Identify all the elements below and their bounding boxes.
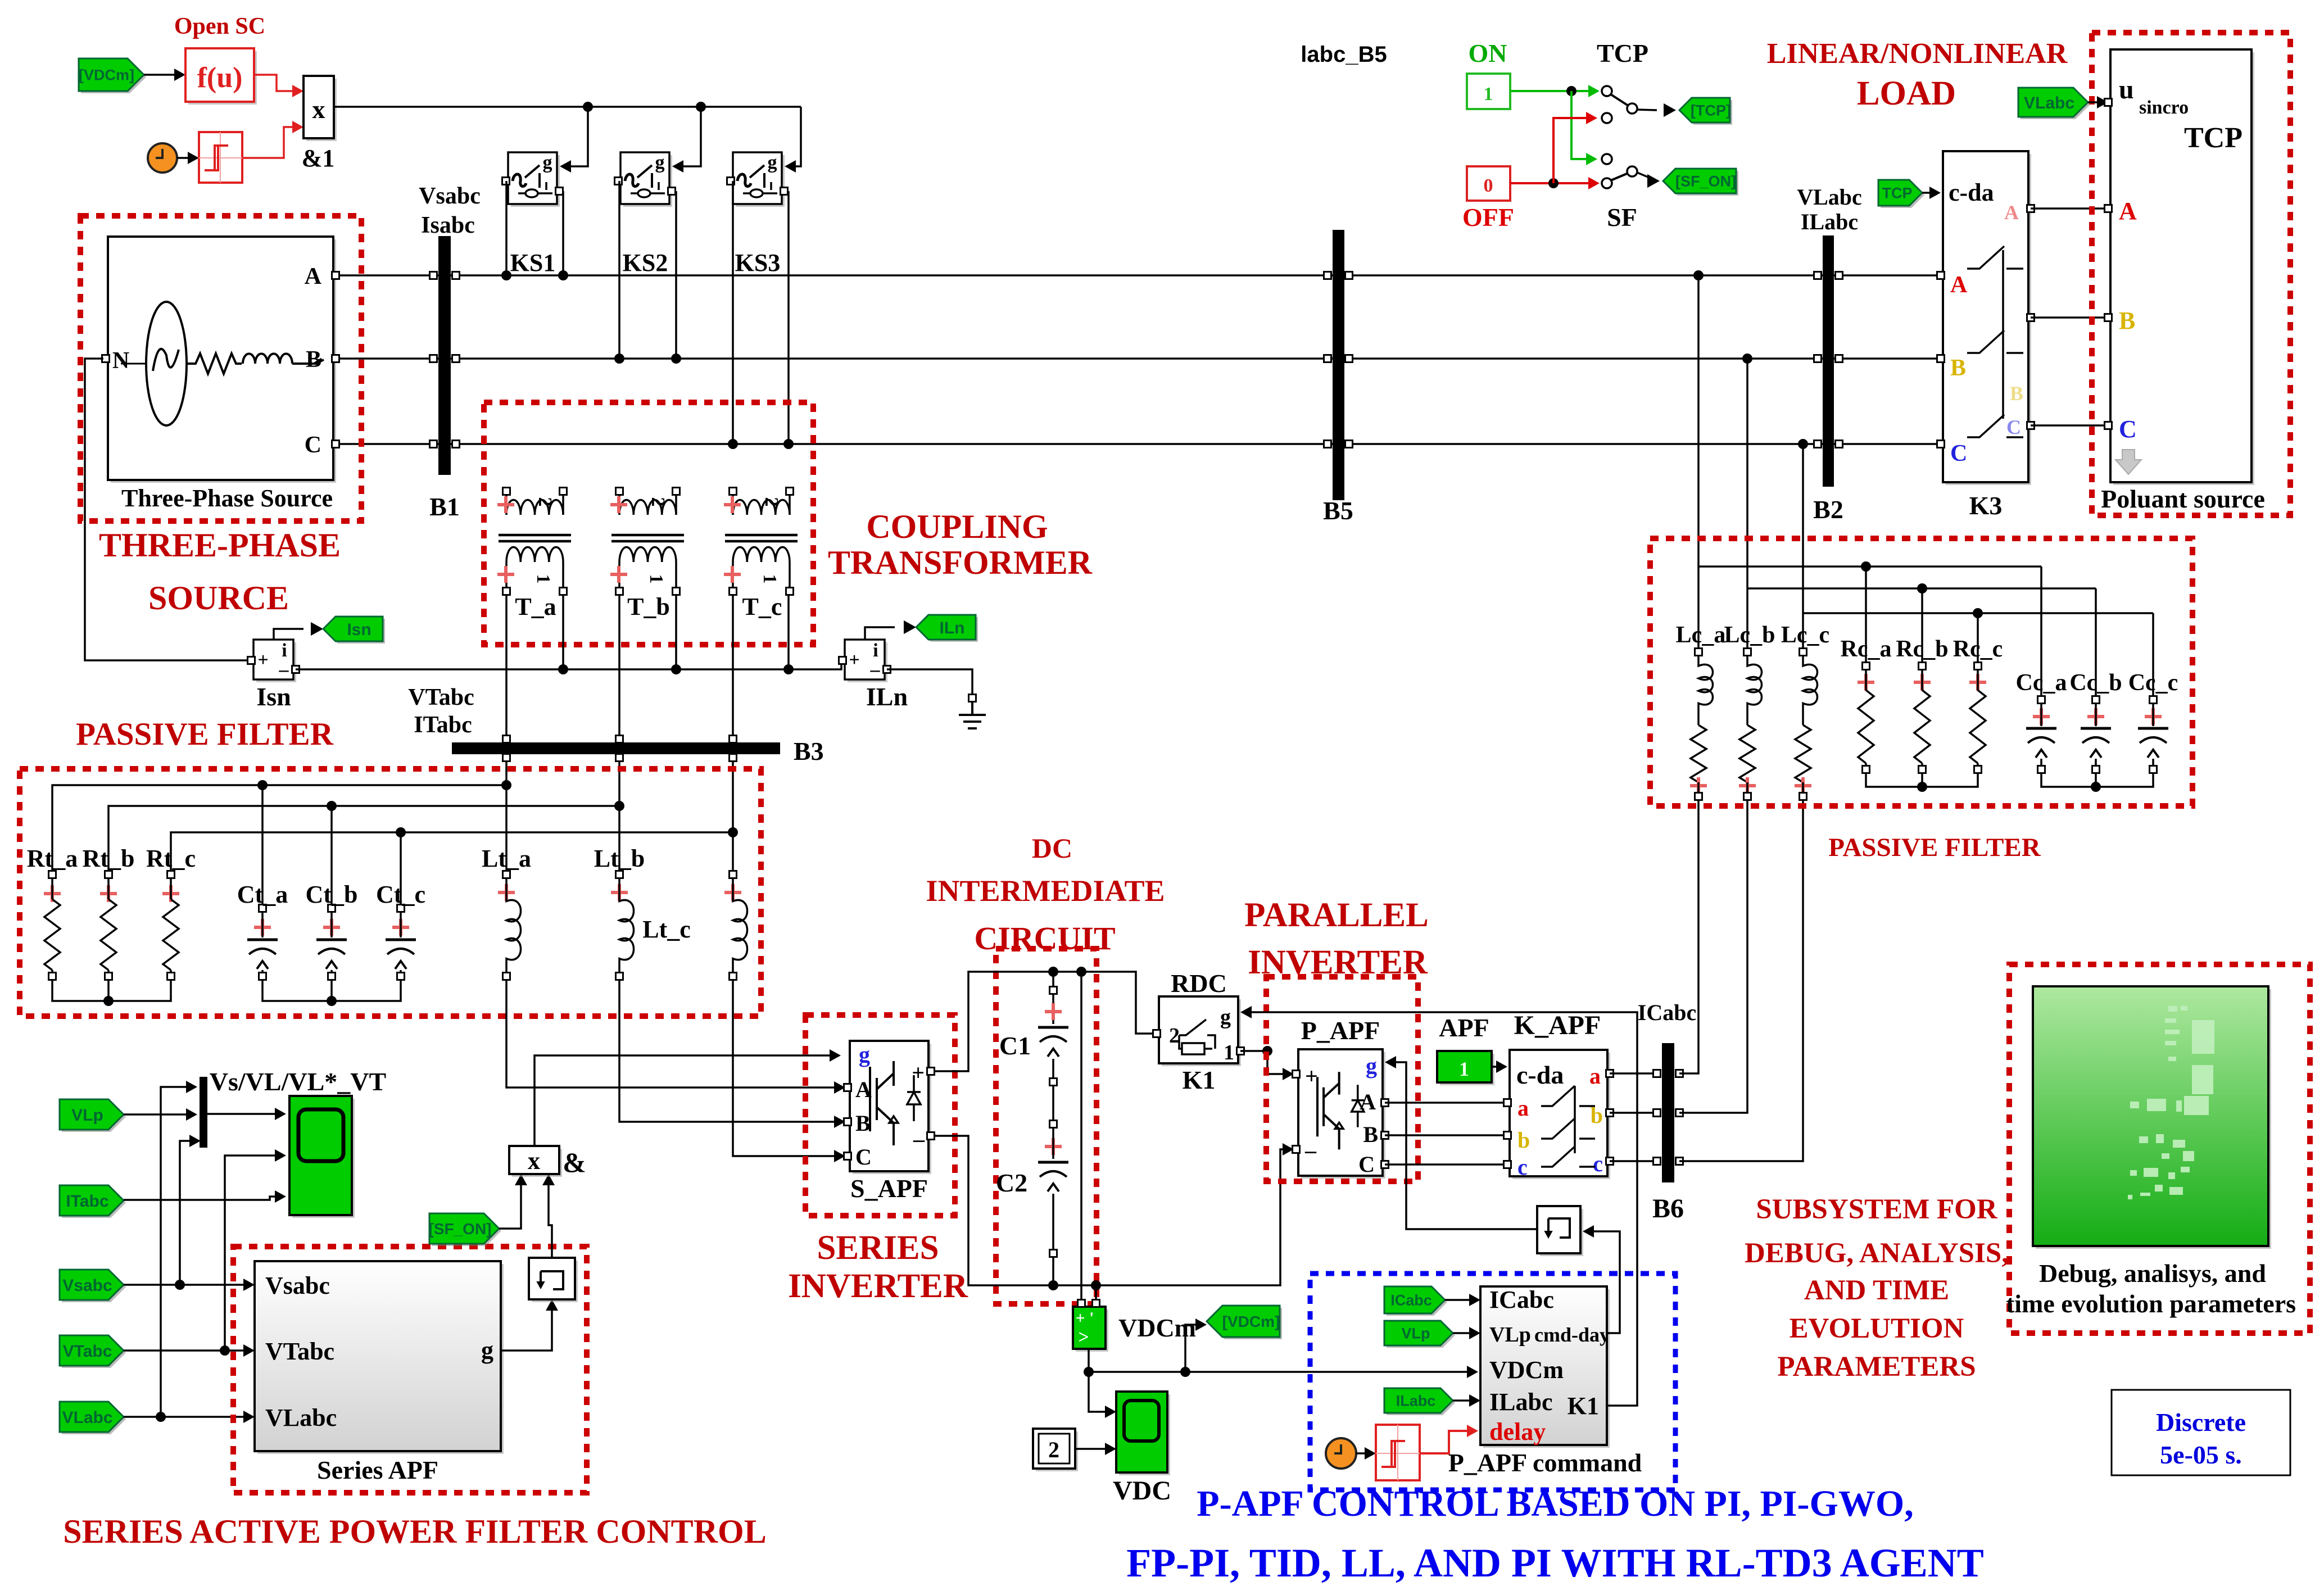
capacitor Ct_c xyxy=(400,832,402,905)
svg-text:INVERTER: INVERTER xyxy=(1248,944,1428,981)
block Isn current measurement xyxy=(256,642,296,682)
svg-text:2: 2 xyxy=(1169,1024,1180,1048)
svg-text:c-da: c-da xyxy=(1516,1061,1564,1089)
svg-text:&1: &1 xyxy=(302,144,335,172)
wire cmd-day to unit delay2 xyxy=(1586,1231,1620,1333)
svg-text:VLabc: VLabc xyxy=(1797,184,1862,210)
transformer T_a xyxy=(503,488,510,495)
source resistor xyxy=(187,354,242,374)
wire VDCm minus stub xyxy=(1095,1285,1097,1300)
wire P_APF a to K_APF a xyxy=(1385,1102,1505,1104)
dashed box series inverter xyxy=(805,1015,955,1216)
inductor Lt_b xyxy=(616,871,623,878)
capacitor Cc_a xyxy=(2040,567,2042,696)
wire Vsabc to Series APF xyxy=(124,1284,251,1286)
wire K_APF c to B6 xyxy=(1610,1160,1659,1162)
wire T_a left leg to B3 xyxy=(505,595,508,738)
from tag VLabc xyxy=(62,1404,126,1434)
wire VTabc to Series APF xyxy=(124,1349,251,1352)
wire VLp to mux in2 xyxy=(124,1113,194,1116)
from tag VDCm xyxy=(81,61,146,93)
svg-text:VTabc: VTabc xyxy=(408,685,474,710)
wire to VDCm goto tag xyxy=(1185,1325,1203,1372)
svg-text:x: x xyxy=(312,95,325,124)
svg-text:ILabc: ILabc xyxy=(1801,209,1858,234)
wire Rt bottom bus xyxy=(52,980,171,1001)
breaker block KS2 xyxy=(623,155,672,207)
clock block Clock1 xyxy=(148,143,177,173)
svg-text:TCP: TCP xyxy=(1882,185,1913,202)
wire ON green xyxy=(1510,90,1596,92)
block Poluant source xyxy=(2113,52,2254,485)
svg-text:Vsabc: Vsabc xyxy=(265,1272,330,1299)
wire B6 c riser xyxy=(1679,800,1803,1161)
svg-text:2: 2 xyxy=(647,497,668,507)
wire T_a right leg to neutral xyxy=(562,595,564,669)
svg-text:K3: K3 xyxy=(1969,491,2003,520)
wire KS3 right leg xyxy=(787,191,790,444)
bus B2 xyxy=(1823,235,1834,487)
svg-text:b: b xyxy=(1517,1127,1530,1153)
wire K3 A out xyxy=(2031,207,2107,210)
svg-text:Vsabc: Vsabc xyxy=(62,1276,112,1295)
svg-text:c: c xyxy=(1593,1151,1603,1176)
svg-text:B6: B6 xyxy=(1652,1194,1684,1224)
inductor Lt_a xyxy=(503,871,510,878)
from tag VLp xyxy=(62,1102,126,1132)
svg-text:–: – xyxy=(870,659,881,680)
svg-text:B: B xyxy=(2119,307,2135,334)
wire B3c down xyxy=(732,761,734,874)
svg-text:TCP: TCP xyxy=(1597,39,1648,67)
wire VLabc to Series APF xyxy=(124,1416,251,1418)
svg-text:B5: B5 xyxy=(1323,496,1353,525)
svg-text:C: C xyxy=(1950,441,1967,466)
svg-text:P_APF command: P_APF command xyxy=(1448,1448,1642,1477)
svg-text:ITabc: ITabc xyxy=(414,712,472,738)
svg-text:Debug, analisys, and: Debug, analisys, and xyxy=(2039,1259,2266,1288)
block f(u) Fcn xyxy=(188,51,257,105)
wire collector line b xyxy=(108,806,619,874)
svg-text:Series APF: Series APF xyxy=(317,1456,438,1484)
wire DC top rail xyxy=(934,972,1153,1071)
wire delay2 to P_APF g xyxy=(1388,1062,1537,1229)
svg-text:APF: APF xyxy=(1439,1013,1489,1042)
svg-text:1: 1 xyxy=(1459,1058,1469,1080)
from tag TCP K3 xyxy=(1881,182,1924,208)
svg-text:g: g xyxy=(655,152,665,173)
junction dots phase lines KS xyxy=(501,270,511,280)
svg-text:SF: SF xyxy=(1607,203,1637,232)
dashed box passive filter left xyxy=(20,769,761,1016)
wire relay to product xyxy=(242,127,300,158)
wire VDCm out line xyxy=(1089,1349,1475,1372)
svg-text:Three-Phase Source: Three-Phase Source xyxy=(121,484,333,512)
block P_APF command xyxy=(1483,1289,1610,1448)
svg-text:1: 1 xyxy=(759,574,780,584)
breaker block KS1 xyxy=(511,155,560,207)
wire relay2 to delay input red xyxy=(1420,1431,1474,1453)
from tag ITabc xyxy=(62,1188,126,1218)
svg-text:PASSIVE FILTER: PASSIVE FILTER xyxy=(76,717,334,752)
constant block 2 xyxy=(1036,1431,1078,1471)
svg-text:C: C xyxy=(855,1144,872,1170)
wire ILabc to block xyxy=(1453,1399,1477,1402)
wire Rc_c feeder xyxy=(1977,613,1979,663)
svg-text:+ ': + ' xyxy=(1076,1309,1094,1327)
wire VDCm plus riser xyxy=(1080,972,1082,1300)
wire Lt_b to S_APF B xyxy=(619,980,842,1122)
svg-text:VLp: VLp xyxy=(1402,1325,1430,1342)
wire const2 to VDC scope xyxy=(1075,1448,1113,1450)
svg-text:5e-05 s.: 5e-05 s. xyxy=(2160,1440,2242,1469)
svg-text:Cc_a: Cc_a xyxy=(2016,670,2067,696)
constant block OFF 0 xyxy=(1467,166,1510,201)
svg-text:cmd-day: cmd-day xyxy=(1534,1324,1610,1346)
wire RDC out to P_APF plus xyxy=(1240,1051,1290,1074)
svg-text:A: A xyxy=(305,264,322,289)
goto tag SF_ON xyxy=(1665,171,1738,196)
svg-text:ON: ON xyxy=(1469,39,1507,67)
svg-text:SOURCE: SOURCE xyxy=(148,579,289,617)
wire Rc bottom bus xyxy=(1866,773,1978,787)
wire VLabc tap to mux in1 xyxy=(161,1087,194,1417)
svg-text:LOAD: LOAD xyxy=(1857,75,1956,112)
manual switch SF xyxy=(1602,154,1612,164)
svg-text:–: – xyxy=(1304,1138,1317,1163)
dashed box parallel inverter xyxy=(1266,977,1418,1181)
debug inner pattern xyxy=(2168,1006,2177,1012)
wire ITabc to scope in3 xyxy=(124,1197,282,1200)
svg-text:C: C xyxy=(1358,1152,1375,1177)
svg-text:Isabc: Isabc xyxy=(421,212,475,238)
svg-text:[VDCm]: [VDCm] xyxy=(1222,1313,1280,1330)
svg-text:B3: B3 xyxy=(794,737,824,765)
svg-text:g: g xyxy=(859,1042,870,1067)
scope block VDC xyxy=(1119,1394,1170,1475)
unit delay block 2 xyxy=(1540,1209,1583,1256)
svg-text:SERIES: SERIES xyxy=(817,1229,939,1267)
svg-text:1: 1 xyxy=(646,574,667,584)
from tag Vsabc xyxy=(62,1272,126,1302)
svg-text:delay: delay xyxy=(1489,1418,1546,1446)
wire P_APF b to K_APF b xyxy=(1385,1134,1505,1136)
svg-text:Cc_c: Cc_c xyxy=(2128,670,2178,696)
svg-text:INTERMEDIATE: INTERMEDIATE xyxy=(926,874,1165,908)
wire ILn to goto tag xyxy=(865,627,895,640)
capacitor Ct_b xyxy=(330,806,333,905)
svg-text:K1: K1 xyxy=(1568,1392,1599,1420)
wire KS3 left leg xyxy=(732,181,734,444)
scope block Vs/VL/VL*_VT xyxy=(292,1099,355,1218)
svg-text:–: – xyxy=(279,659,289,680)
svg-text:>: > xyxy=(1078,1327,1089,1348)
svg-text:Open SC: Open SC xyxy=(174,13,265,39)
wire product2 to S_APF g xyxy=(534,1055,837,1146)
svg-text:A: A xyxy=(1360,1089,1376,1114)
product block x (&1) xyxy=(306,79,337,141)
svg-text:Poluant source: Poluant source xyxy=(2101,484,2265,513)
svg-text:g: g xyxy=(543,152,552,173)
svg-text:N: N xyxy=(112,348,129,374)
svg-text:a: a xyxy=(1589,1063,1601,1089)
from tag VLabc poluant xyxy=(2021,90,2090,119)
wire KS2 right leg xyxy=(675,191,677,359)
wire mux to scope in1 xyxy=(207,1113,282,1115)
svg-text:C2: C2 xyxy=(996,1168,1027,1197)
wire clock to relay xyxy=(177,157,196,159)
svg-text:VTabc: VTabc xyxy=(265,1338,334,1365)
svg-text:T_c: T_c xyxy=(742,593,782,620)
wire VDCm to f(u) xyxy=(144,74,182,76)
svg-text:+: + xyxy=(257,650,268,670)
wire Ct bottom bus xyxy=(262,980,401,1001)
svg-text:+: + xyxy=(1305,1063,1318,1089)
svg-text:T_a: T_a xyxy=(515,593,556,620)
svg-text:ITabc: ITabc xyxy=(66,1192,108,1211)
svg-text:VDCm: VDCm xyxy=(1489,1356,1564,1384)
wire feeder C xyxy=(1802,444,1804,652)
wire neutral Isn to ILn xyxy=(296,660,842,669)
wire B3b down xyxy=(618,761,620,874)
svg-text:[SF_ON]: [SF_ON] xyxy=(429,1220,492,1238)
capacitor Ct_a xyxy=(261,785,264,905)
svg-text:Rt_c: Rt_c xyxy=(146,845,196,872)
block Discrete xyxy=(2112,1390,2290,1475)
svg-text:KS1: KS1 xyxy=(510,249,556,277)
svg-text:TCP: TCP xyxy=(2184,122,2243,154)
wire Rc_a feeder xyxy=(1865,567,1867,663)
wire collector a right xyxy=(1698,565,2041,568)
inductor-resistor Lc_b xyxy=(1744,649,1751,656)
svg-text:KS2: KS2 xyxy=(623,249,668,277)
svg-text:AND TIME: AND TIME xyxy=(1804,1275,1949,1306)
goto tag ILn xyxy=(918,617,978,642)
svg-text:A: A xyxy=(1950,272,1968,298)
svg-text:C1: C1 xyxy=(999,1031,1031,1060)
resistor Rc_a xyxy=(1863,663,1870,670)
svg-text:LINEAR/NONLINEAR: LINEAR/NONLINEAR xyxy=(1767,38,2068,70)
goto tag VDCm xyxy=(1209,1308,1282,1339)
wire K1 to RDC g xyxy=(1244,1012,1637,1406)
svg-text:OFF: OFF xyxy=(1462,203,1514,232)
svg-text:Ct_b: Ct_b xyxy=(306,881,358,908)
gray arrow icon xyxy=(2115,450,2141,474)
svg-text:EVOLUTION: EVOLUTION xyxy=(1790,1313,1964,1344)
wire phase A line xyxy=(334,274,1942,277)
product block x2 & xyxy=(512,1149,562,1177)
svg-text:2: 2 xyxy=(761,497,782,507)
svg-text:Rt_a: Rt_a xyxy=(27,845,78,872)
wire VTabc tap to scope in2 xyxy=(225,1156,282,1351)
manual switch TCP xyxy=(1602,86,1612,96)
wire B6 b riser xyxy=(1679,800,1747,1113)
svg-text:Lt_c: Lt_c xyxy=(642,916,691,943)
dashed box coupling transformer xyxy=(484,402,813,645)
svg-text:Ct_a: Ct_a xyxy=(237,881,288,908)
svg-text:[VDCm]: [VDCm] xyxy=(79,67,134,84)
wire T_b left leg to B3 xyxy=(618,595,620,738)
svg-text:VLabc: VLabc xyxy=(265,1404,337,1431)
wire Lt_a to S_APF A xyxy=(506,980,842,1087)
wire collector line a xyxy=(52,785,506,874)
wire APF to K_APF xyxy=(1492,1066,1504,1068)
wire ILn to ground xyxy=(887,669,972,695)
svg-text:VTabc: VTabc xyxy=(63,1342,112,1361)
svg-text:g: g xyxy=(768,152,777,173)
svg-text:Isn: Isn xyxy=(256,682,291,711)
svg-text:–: – xyxy=(913,1126,925,1152)
svg-text:+: + xyxy=(849,650,859,670)
svg-text:g: g xyxy=(481,1336,493,1364)
svg-text:Ct_c: Ct_c xyxy=(376,881,425,908)
svg-text:ICabc: ICabc xyxy=(1638,1000,1696,1025)
svg-text:x: x xyxy=(528,1147,540,1175)
svg-text:Vsabc: Vsabc xyxy=(419,183,481,209)
wire Isn to goto tag xyxy=(274,629,303,640)
dashed box poluant source xyxy=(2092,33,2290,515)
block RDC K1 xyxy=(1162,999,1241,1066)
wire K_APF b to B6 xyxy=(1610,1112,1659,1114)
svg-text:THREE-PHASE: THREE-PHASE xyxy=(99,527,341,564)
svg-text:VLp: VLp xyxy=(71,1106,103,1125)
wire B3a down xyxy=(505,761,508,874)
svg-text:C: C xyxy=(2119,415,2137,443)
block debug subsystem xyxy=(2036,989,2271,1249)
bus B5 xyxy=(1333,230,1344,500)
svg-text:B: B xyxy=(2010,382,2023,405)
svg-text:&: & xyxy=(563,1147,586,1178)
svg-text:2: 2 xyxy=(1048,1437,1059,1462)
block relay Relay1 xyxy=(199,132,242,183)
svg-text:u: u xyxy=(2119,75,2134,105)
wire K3 C out xyxy=(2031,424,2107,427)
transformer T_b xyxy=(616,488,623,495)
svg-text:RDC: RDC xyxy=(1171,969,1227,998)
svg-text:a: a xyxy=(1517,1095,1529,1121)
block S_APF inverter xyxy=(853,1044,931,1174)
unit delay block (series) xyxy=(532,1261,578,1302)
svg-text:f(u): f(u) xyxy=(197,62,243,94)
svg-text:C: C xyxy=(305,432,321,458)
wire collector line c xyxy=(171,832,733,874)
resistor Rc_b xyxy=(1919,663,1926,670)
constant block ON 1 xyxy=(1467,74,1510,109)
wire gate drop KS3 xyxy=(787,107,801,166)
from tag ILabc cmd xyxy=(1387,1390,1455,1415)
capacitor Cc_b xyxy=(2095,588,2097,696)
source inductor xyxy=(243,354,292,364)
mux bar xyxy=(200,1077,207,1148)
resistor Rt_a xyxy=(49,871,56,878)
port A xyxy=(332,272,339,279)
block VDCm measurement xyxy=(1076,1309,1108,1352)
port N xyxy=(102,355,110,362)
svg-text:g: g xyxy=(1220,1005,1231,1029)
wire Lt_c to S_APF C xyxy=(733,980,842,1156)
svg-text:PARAMETERS: PARAMETERS xyxy=(1777,1351,1976,1383)
wire gate drop KS1 xyxy=(562,107,588,166)
resistor Rc_c xyxy=(1974,663,1982,670)
svg-text:1: 1 xyxy=(1224,1041,1234,1064)
inductor Lt_c xyxy=(730,871,737,878)
from tag VLp cmd xyxy=(1387,1323,1455,1348)
svg-text:T_b: T_b xyxy=(627,593,670,620)
svg-text:VLabc: VLabc xyxy=(62,1408,112,1427)
svg-text:K_APF: K_APF xyxy=(1514,1011,1601,1040)
wire KS1 left leg xyxy=(505,181,508,275)
svg-text:Isn: Isn xyxy=(347,620,371,639)
dashed box P-APF control blue xyxy=(1310,1274,1675,1490)
svg-text:VLp: VLp xyxy=(1489,1323,1531,1347)
goto tag TCP xyxy=(1682,100,1732,125)
from tag ICabc cmd xyxy=(1387,1289,1447,1316)
wire phase C line xyxy=(334,443,1940,445)
svg-text:B: B xyxy=(855,1111,871,1136)
wire gate drop KS2 xyxy=(674,107,701,166)
svg-text:TRANSFORMER: TRANSFORMER xyxy=(828,544,1093,581)
block K_APF switch xyxy=(1512,1053,1610,1179)
svg-text:Lt_a: Lt_a xyxy=(482,845,531,872)
svg-text:Lc_c: Lc_c xyxy=(1781,622,1829,648)
svg-text:Lc_a: Lc_a xyxy=(1676,622,1726,648)
wire collector c right xyxy=(1803,612,2153,614)
svg-text:COUPLING: COUPLING xyxy=(866,508,1048,545)
from tag SF_ON xyxy=(432,1216,501,1246)
wire VLabc to poluant xyxy=(2088,101,2105,103)
wire P_APF c to K_APF c xyxy=(1385,1163,1505,1166)
wire Rc_b feeder xyxy=(1921,588,1923,663)
wire product output to KS gates xyxy=(334,106,801,108)
capacitor Cc_c xyxy=(2152,613,2154,696)
svg-text:VLabc: VLabc xyxy=(2024,94,2074,112)
svg-text:i: i xyxy=(873,640,878,661)
svg-text:B: B xyxy=(1363,1122,1378,1147)
breaker block KS3 xyxy=(736,155,785,207)
block P_APF inverter xyxy=(1301,1052,1385,1179)
svg-text:Rt_b: Rt_b xyxy=(83,845,135,872)
inductor-resistor Lc_a xyxy=(1695,649,1702,656)
svg-text:ICabc: ICabc xyxy=(1489,1286,1554,1313)
wire Vsabc tap to mux in3 xyxy=(180,1141,194,1285)
wire DC bottom rail xyxy=(934,1136,1290,1285)
svg-text:A: A xyxy=(2119,197,2137,225)
three-phase source block xyxy=(111,239,336,483)
svg-text:SERIES ACTIVE POWER FILTER CON: SERIES ACTIVE POWER FILTER CONTROL xyxy=(63,1513,766,1550)
wire f(u) to product xyxy=(254,75,300,91)
svg-text:ICabc: ICabc xyxy=(1390,1292,1432,1309)
wire KS1 right leg xyxy=(562,191,564,275)
svg-text:B2: B2 xyxy=(1813,495,1843,524)
wire OFF red xyxy=(1510,182,1596,184)
resistor Rt_b xyxy=(105,871,112,878)
inductor-resistor Lc_c xyxy=(1800,649,1807,656)
svg-text:c: c xyxy=(1517,1154,1528,1180)
wire VLp to block xyxy=(1453,1332,1477,1334)
svg-text:sincro: sincro xyxy=(2139,97,2189,118)
svg-text:SUBSYSTEM FOR: SUBSYSTEM FOR xyxy=(1756,1194,1998,1225)
dashed box DC intermediate circuit xyxy=(996,949,1097,1304)
clock block Clock2 xyxy=(1326,1438,1356,1469)
svg-text:ILabc: ILabc xyxy=(1489,1388,1552,1416)
svg-text:C: C xyxy=(2006,416,2021,438)
svg-text:P_APF: P_APF xyxy=(1301,1016,1380,1045)
dashed box passive filter right xyxy=(1650,538,2192,806)
dashed box series APF control xyxy=(233,1247,587,1493)
svg-text:DC: DC xyxy=(1032,832,1072,864)
goto tag Isn xyxy=(325,619,385,644)
svg-text:PARALLEL: PARALLEL xyxy=(1244,896,1429,934)
